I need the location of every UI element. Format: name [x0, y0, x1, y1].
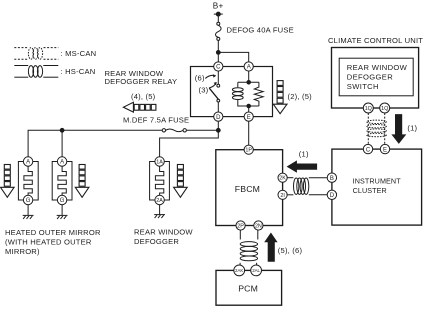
- rear window defogger switch box: [339, 58, 413, 96]
- terminal D: [214, 112, 223, 121]
- svg-text:A: A: [26, 160, 30, 166]
- svg-text:CLIMATE CONTROL UNIT: CLIMATE CONTROL UNIT: [328, 36, 423, 45]
- svg-text:(1): (1): [299, 150, 309, 159]
- hatched arrow down mirror2: [75, 165, 89, 198]
- svg-text:DEFOG 40A FUSE: DEFOG 40A FUSE: [227, 26, 294, 35]
- PCM box: [216, 270, 282, 305]
- svg-text:B: B: [330, 176, 334, 182]
- svg-text:: MS-CAN: : MS-CAN: [61, 49, 97, 58]
- legend HS-CAN symbol: [14, 66, 58, 78]
- svg-text:2K: 2K: [279, 176, 286, 182]
- ground defogger: [154, 205, 165, 218]
- terminal E cluster: [380, 144, 389, 153]
- svg-text:2I: 2I: [280, 193, 285, 199]
- climate control unit box: [332, 48, 419, 109]
- black arrow (1) down to cluster: [391, 114, 406, 144]
- svg-text:SWITCH: SWITCH: [347, 82, 379, 91]
- instrument cluster box: [332, 149, 422, 225]
- node mirror 2 tap: [60, 128, 64, 132]
- B+ terminal: [214, 12, 223, 22]
- terminal C: [214, 62, 223, 71]
- FBCM box: [216, 150, 283, 226]
- svg-text:(2), (5): (2), (5): [288, 92, 313, 101]
- heater element mirror2: [58, 166, 66, 195]
- svg-text:C: C: [366, 147, 371, 153]
- svg-text:REAR WINDOW: REAR WINDOW: [347, 63, 408, 72]
- svg-text:M.DEF 7.5A FUSE: M.DEF 7.5A FUSE: [123, 116, 189, 125]
- wire junction to A branch: [218, 52, 248, 62]
- terminal 2N: [254, 221, 263, 230]
- svg-text:REAR WINDOW: REAR WINDOW: [134, 227, 193, 236]
- heated mirror 2 box: [52, 162, 72, 201]
- svg-text:HEATED OUTER MIRROR: HEATED OUTER MIRROR: [5, 228, 101, 237]
- svg-text:(3): (3): [199, 85, 209, 94]
- svg-text:(4), (5): (4), (5): [131, 92, 156, 101]
- svg-text:DEFOGGER: DEFOGGER: [347, 73, 393, 82]
- terminal E: [244, 112, 253, 121]
- label (3) with arrow: [209, 82, 217, 88]
- ground mirror2: [57, 205, 68, 219]
- wire D to junction: [217, 121, 219, 130]
- terminal 1A: [155, 157, 164, 166]
- svg-text:D: D: [216, 115, 221, 121]
- terminal D cluster: [327, 190, 336, 199]
- svg-text:INSTRUMENT: INSTRUMENT: [353, 177, 402, 186]
- terminal 2K: [278, 173, 287, 182]
- fuse DEFOG 40A: [216, 22, 222, 50]
- ground mirror1: [23, 205, 34, 219]
- svg-text:1Q: 1Q: [381, 106, 388, 112]
- node below D: [216, 128, 220, 132]
- relay switch: [209, 71, 219, 112]
- terminal G mirror1: [23, 195, 32, 204]
- svg-text:E: E: [383, 147, 387, 153]
- heated mirror 1 box: [18, 162, 38, 201]
- svg-text:: HS-CAN: : HS-CAN: [61, 67, 96, 76]
- legend MS-CAN symbol: [14, 48, 58, 60]
- svg-text:1Q: 1Q: [365, 106, 372, 112]
- wire defogger feed: [160, 130, 219, 157]
- node B+ junction: [216, 51, 220, 55]
- heater element defogger: [155, 166, 163, 195]
- wire main bus left: [186, 129, 216, 131]
- svg-text:2P: 2P: [237, 224, 244, 230]
- svg-text:(6): (6): [195, 73, 205, 82]
- svg-text:E: E: [247, 115, 251, 121]
- MS-CAN pair climate to cluster: [367, 113, 387, 144]
- svg-text:DEFOGGER: DEFOGGER: [134, 237, 179, 246]
- svg-text:1P: 1P: [245, 148, 252, 154]
- relay resistor: [254, 82, 263, 106]
- svg-text:MIRROR): MIRROR): [5, 247, 40, 256]
- svg-text:PCM: PCM: [238, 284, 258, 294]
- terminal 1P: [244, 145, 253, 154]
- terminal 2A: [155, 195, 164, 204]
- svg-text:DEFOGGER RELAY: DEFOGGER RELAY: [105, 77, 178, 86]
- HS-CAN pair FBCM to PCM: [240, 230, 258, 266]
- svg-text:C: C: [216, 65, 221, 71]
- terminal 2I: [278, 190, 287, 199]
- black arrow (5),(6) up to FBCM: [264, 233, 277, 262]
- wire tap to mirror 2: [61, 130, 63, 157]
- label (6) with arrow: [205, 74, 216, 78]
- hatched arrow left (M.DEF): [123, 102, 156, 112]
- wire E to 1P: [248, 121, 250, 145]
- svg-text:(WITH HEATED OUTER: (WITH HEATED OUTER: [5, 237, 92, 246]
- terminal 1Q left: [363, 103, 373, 113]
- hatched arrow down mirror1: [1, 165, 15, 198]
- hatched arrow down (2),(5): [273, 81, 287, 114]
- terminal 2P: [236, 221, 245, 230]
- svg-text:2AL: 2AL: [252, 268, 260, 273]
- terminal A mirror2: [57, 157, 66, 166]
- svg-text:G: G: [60, 198, 65, 204]
- terminal B cluster: [327, 173, 336, 182]
- rear window defogger box: [150, 162, 170, 201]
- svg-text:A: A: [60, 160, 64, 166]
- hatched arrow down defogger: [174, 165, 188, 198]
- svg-text:2A: 2A: [156, 198, 163, 204]
- terminal C cluster: [363, 144, 372, 153]
- terminal A mirror1: [23, 157, 32, 166]
- heater element mirror1: [24, 166, 32, 195]
- svg-text:(1): (1): [407, 124, 417, 133]
- terminal A: [244, 62, 253, 71]
- svg-text:FBCM: FBCM: [235, 184, 260, 194]
- wire fuse to mirrors bus: [28, 130, 162, 157]
- terminal 2AL: [251, 265, 262, 276]
- svg-text:A: A: [247, 65, 251, 71]
- svg-text:2N: 2N: [255, 224, 262, 230]
- wire junction to C: [217, 52, 219, 62]
- svg-text:CLUSTER: CLUSTER: [353, 186, 387, 195]
- HS-CAN pair FBCM to cluster: [287, 178, 327, 195]
- svg-text:(5), (6): (5), (6): [278, 246, 303, 255]
- svg-text:G: G: [26, 198, 31, 204]
- svg-text:B+: B+: [213, 2, 224, 11]
- svg-text:D: D: [330, 193, 335, 199]
- terminal G mirror2: [57, 195, 66, 204]
- relay box: [191, 67, 273, 117]
- fuse M.DEF 7.5A: [162, 129, 186, 132]
- black arrow (1) to FBCM: [287, 160, 318, 172]
- terminal 2AK: [234, 265, 245, 276]
- terminal 1Q right: [380, 103, 390, 113]
- svg-text:1A: 1A: [156, 160, 163, 166]
- svg-text:2AK: 2AK: [235, 268, 243, 273]
- relay coil branch: [232, 71, 258, 112]
